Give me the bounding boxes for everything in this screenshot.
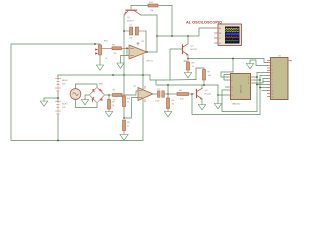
svg-text:MAX232: MAX232	[232, 102, 241, 105]
svg-text:4: 4	[232, 90, 233, 92]
wire ground stub left of BUF chain	[44, 98, 58, 101]
svg-text:AL OSCILOSCOPIO: AL OSCILOSCOPIO	[186, 21, 222, 25]
node output junction	[146, 51, 148, 53]
wire main mid rail step	[150, 75, 218, 85]
wire Q4 emitter	[201, 99, 203, 105]
IC U1 microcontroller	[271, 58, 289, 100]
resistor R4	[123, 96, 126, 118]
wire Q2 base from left	[170, 49, 182, 80]
svg-text:7: 7	[248, 80, 249, 82]
wire tap to opamp2 plus	[124, 98, 138, 119]
resistor R7	[203, 68, 206, 85]
wire opamp output	[147, 51, 157, 53]
wire emitter line to MCU	[188, 59, 268, 63]
wire y79 jog from output area	[170, 79, 196, 82]
transistor Q4 lower	[197, 88, 203, 99]
svg-text:11: 11	[272, 93, 274, 95]
svg-text:BC557: BC557	[127, 21, 134, 23]
wire Q2 collector up	[187, 36, 189, 44]
svg-text:BC557: BC557	[191, 49, 198, 51]
AC source V1	[70, 89, 81, 100]
node rail dot b	[123, 74, 125, 76]
wire C1 right down to output	[145, 31, 147, 52]
wire emitter branch to R7	[196, 68, 204, 80]
svg-text:BC547: BC547	[205, 94, 212, 96]
battery BUF1	[56, 102, 61, 115]
node C1 left	[123, 30, 125, 32]
svg-text:1: 1	[232, 77, 233, 79]
wire U1 extra links	[262, 82, 268, 91]
resistor R5	[123, 120, 126, 135]
wire rail down to U2 pin	[218, 85, 228, 95]
U1 right top pin	[288, 60, 292, 62]
svg-text:6: 6	[248, 83, 249, 85]
U2 pin numbers	[232, 77, 250, 97]
wire U2-U1 link a	[255, 73, 268, 78]
svg-text:8: 8	[248, 77, 249, 79]
node scope tap	[156, 35, 158, 37]
node R10 branch	[171, 35, 173, 37]
node extra b	[259, 87, 261, 89]
wire Q1 right leg to vertical	[141, 15, 157, 52]
node R9 out	[126, 47, 128, 49]
bridge rectifier BR1	[90, 88, 104, 102]
svg-text:8: 8	[272, 84, 273, 86]
svg-text:4: 4	[272, 72, 273, 74]
wire U1 extra pin link a	[257, 84, 268, 86]
node collector branch	[187, 35, 189, 37]
svg-text:7: 7	[272, 81, 273, 83]
resistor R9	[102, 47, 129, 50]
node pot top	[94, 43, 96, 45]
node emitter line branch	[232, 58, 234, 60]
resistor R3	[167, 94, 170, 112]
node R7 bottom	[203, 84, 205, 86]
ground G7 under R8	[184, 73, 191, 78]
wire opamp V- down to rail	[142, 59, 144, 76]
node R4/R5 tap	[123, 117, 125, 119]
ground G8	[198, 105, 205, 110]
wire R10 right down to node	[161, 6, 172, 37]
ground G9	[214, 104, 221, 109]
node rail dot c	[142, 74, 144, 76]
wire inner bottom loop	[222, 73, 257, 112]
U1 pin numbers	[272, 62, 274, 98]
svg-text:BUF1: BUF1	[62, 104, 68, 106]
svg-text:3: 3	[272, 69, 273, 71]
node BUF mid junction	[57, 97, 59, 99]
wire to oscilloscope	[157, 28, 215, 36]
wire outer bottom loop	[192, 76, 260, 115]
wire plus input to ground	[121, 56, 128, 64]
wire Q1 base up and right to R10	[131, 6, 148, 11]
node rail to U2	[217, 94, 219, 96]
svg-text:BUF0: BUF0	[62, 80, 68, 82]
svg-text:100n: 100n	[155, 101, 161, 103]
U2 left pins	[228, 77, 231, 95]
resistor R1	[109, 94, 126, 97]
U2 right pins	[251, 77, 255, 83]
svg-text:5: 5	[272, 75, 273, 77]
svg-text:MAX232: MAX232	[240, 84, 243, 93]
ground G1	[40, 101, 47, 106]
svg-text:2: 2	[232, 80, 233, 82]
resistor R6	[168, 93, 194, 96]
svg-text:LM741: LM741	[146, 61, 153, 63]
U1 left pins	[268, 61, 271, 97]
IC U2	[231, 74, 251, 100]
wire R9 node down to plus input	[127, 48, 129, 55]
ground G-pot	[96, 65, 103, 70]
battery BUF0	[56, 79, 61, 92]
ground G3 under R2	[105, 112, 112, 117]
wire U2-U1 link b	[255, 76, 268, 81]
wire U2 pin1 bracket from emitter line	[221, 59, 233, 78]
capacitor C1	[124, 27, 146, 35]
wire U2-U1 link c	[255, 79, 268, 84]
potentiometer RV1	[95, 44, 101, 65]
node BUF bottom junction	[57, 140, 59, 142]
AC source V1 wires	[76, 84, 110, 108]
wire node up to rail	[167, 85, 169, 94]
ground G4 under R5	[120, 135, 128, 141]
node link a	[256, 76, 258, 78]
wire Q1 left leg down	[123, 15, 125, 96]
op-amp U3	[129, 43, 147, 60]
node extra a	[256, 84, 258, 86]
node emitter	[187, 58, 189, 60]
svg-text:12: 12	[272, 96, 274, 98]
ground G2 bridge	[81, 100, 88, 105]
wire R1 to opamp minus	[126, 91, 139, 95]
wire long left loop	[11, 44, 143, 141]
oscilloscope instrument	[215, 24, 242, 46]
svg-text:5: 5	[232, 95, 233, 97]
node rail tap at 168	[167, 84, 169, 86]
wire U2 pin87 stub	[226, 86, 228, 88]
ground G10 hook	[250, 60, 268, 66]
transistor Q2 upper	[183, 44, 189, 56]
node C2 out	[167, 93, 169, 95]
op-amp U4	[138, 86, 153, 102]
node bridge output	[108, 94, 110, 96]
svg-text:3: 3	[232, 87, 233, 89]
wire Q4 collector	[201, 85, 203, 88]
ground G5	[117, 63, 124, 68]
svg-text:10: 10	[272, 90, 274, 92]
node link b	[259, 79, 261, 81]
wire U2 bracket	[224, 75, 230, 81]
resistor R10	[148, 4, 161, 7]
node base loop tap	[191, 93, 193, 95]
resistor R8	[184, 59, 190, 73]
wire down to ground	[217, 95, 219, 104]
svg-text:2: 2	[272, 65, 273, 67]
ground G6 under R3	[164, 112, 171, 117]
svg-text:9: 9	[272, 87, 273, 89]
wire U1 extra pin link b	[260, 87, 268, 89]
svg-text:1: 1	[272, 62, 273, 64]
node rail dot a	[112, 74, 114, 76]
svg-text:6: 6	[272, 78, 273, 80]
wire BUF chain verticals	[58, 75, 150, 141]
wire Q2 emitter down	[187, 55, 189, 59]
ground G10 arrow	[246, 64, 253, 69]
transistor Q1 oscillator	[124, 10, 140, 15]
svg-text:1nF: 1nF	[129, 38, 133, 40]
capacitor C2	[158, 91, 169, 98]
resistor R2	[108, 95, 111, 112]
wire opamp2 output	[153, 93, 158, 95]
